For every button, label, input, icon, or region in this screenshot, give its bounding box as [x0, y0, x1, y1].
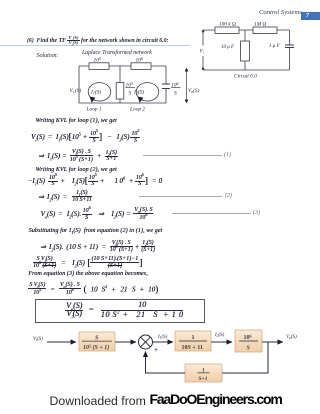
svg-text:105 (S + 1): 105 (S + 1) [83, 344, 109, 352]
loop current I2 ellipse [136, 83, 159, 101]
boxed result [35, 299, 205, 323]
svg-text:10S + 11: 10S + 11 [182, 345, 203, 351]
blue rule [0, 45, 190, 46]
svg-text:Circuit 6.0: Circuit 6.0 [234, 74, 257, 80]
wire arrow G2 to block G3 signal I2(S) [211, 341, 232, 343]
svg-text:Loop 1: Loop 1 [86, 107, 102, 113]
wire Vi source upper stub [202, 30, 204, 46]
svg-text:10 μ F: 10 μ F [221, 45, 235, 50]
svg-text:Vi (S): Vi (S) [70, 87, 82, 94]
svg-text:I2(S): I2(S) [214, 333, 225, 338]
resistor R2 1M ohm [253, 27, 277, 34]
block G3 10^6/S [235, 330, 262, 352]
svg-text:I1(S): I1(S) [90, 89, 101, 96]
watermark [50, 394, 146, 408]
loop current I1 arrowhead [90, 97, 96, 103]
wire right branch with capacitor Z4 gap [165, 66, 167, 103]
svg-text:Vi(S): Vi(S) [33, 337, 43, 342]
wire top rail circuit 6.0 [203, 29, 290, 31]
svg-text:105: 105 [94, 56, 102, 64]
svg-text:Vo(S): Vo(S) [188, 87, 200, 94]
svg-text:Loop 2: Loop 2 [129, 107, 145, 113]
svg-text:106: 106 [136, 56, 144, 64]
wire output arrow Vo(S) [262, 341, 283, 343]
Laplace Transformed network title [82, 50, 152, 56]
block G2 1/(10S+11) [175, 331, 211, 351]
wire top rail Laplace network [79, 65, 166, 67]
svg-text:Vo(S): Vo(S) [286, 335, 297, 340]
wire right branch with capacitor C2 gap [289, 30, 291, 70]
svg-text:100 k Ω: 100 k Ω [219, 22, 236, 28]
impedance Z3 10^5/S middle branch wires [119, 66, 121, 103]
wire input arrow Vi(S) to block G1 [47, 341, 76, 343]
resistor R1 100 k ohm [215, 27, 239, 34]
svg-text:S+1: S+1 [199, 376, 208, 382]
svg-text:I2(S): I2(S) [133, 89, 144, 96]
svg-text:Vi: Vi [200, 50, 204, 55]
loop current I2 arrowhead [138, 97, 144, 103]
problem statement [27, 36, 168, 46]
capacitor C2 1 uF plates [285, 45, 294, 48]
svg-text:S: S [129, 91, 132, 97]
resistor Z2 10^6 [131, 63, 151, 70]
value label Z3 fraction bar [126, 87, 136, 89]
block H1 1/(S+1) feedback [185, 364, 222, 382]
header: Control Systems [259, 9, 302, 16]
wire bottom rail circuit 6.0 [203, 69, 290, 71]
capacitor C1 10 uF middle branch wires [244, 30, 246, 70]
header page number box [301, 12, 320, 20]
capacitor Z4 10^6/S plates [162, 84, 170, 89]
wire arrow summing junction to block G2 [153, 341, 174, 343]
block G1 S/(10^5(S+1)) [79, 332, 115, 351]
wire feedback H1 to summing junction with up arrow [146, 352, 186, 374]
resistor Z1 10^5 [89, 63, 109, 70]
wire arrow G1 to summing junction [115, 341, 136, 343]
svg-text:I1(S): I1(S) [157, 335, 168, 340]
wire Vi source lower stub [202, 56, 204, 70]
node Vi top terminal arrow [202, 31, 205, 34]
wire left branch Vi(S) [78, 66, 80, 103]
loop current I1 ellipse [88, 83, 111, 101]
svg-text:1M Ω: 1M Ω [254, 22, 266, 28]
svg-text:1 μ F: 1 μ F [269, 44, 281, 49]
svg-text:1: 1 [192, 335, 195, 341]
summing junction U1 cross [141, 337, 151, 347]
svg-text:S: S [174, 91, 177, 97]
summing junction U1 circle [139, 335, 153, 349]
value label Z4 fraction bar [171, 87, 181, 89]
node Vo(S) measurement double arrow [186, 70, 188, 101]
node Vi bottom terminal arrow [202, 67, 205, 70]
wire feedback tap from output [222, 342, 268, 373]
wire bottom rail Laplace network [79, 102, 166, 104]
svg-text:+: + [154, 346, 158, 354]
Solution: [37, 53, 59, 59]
